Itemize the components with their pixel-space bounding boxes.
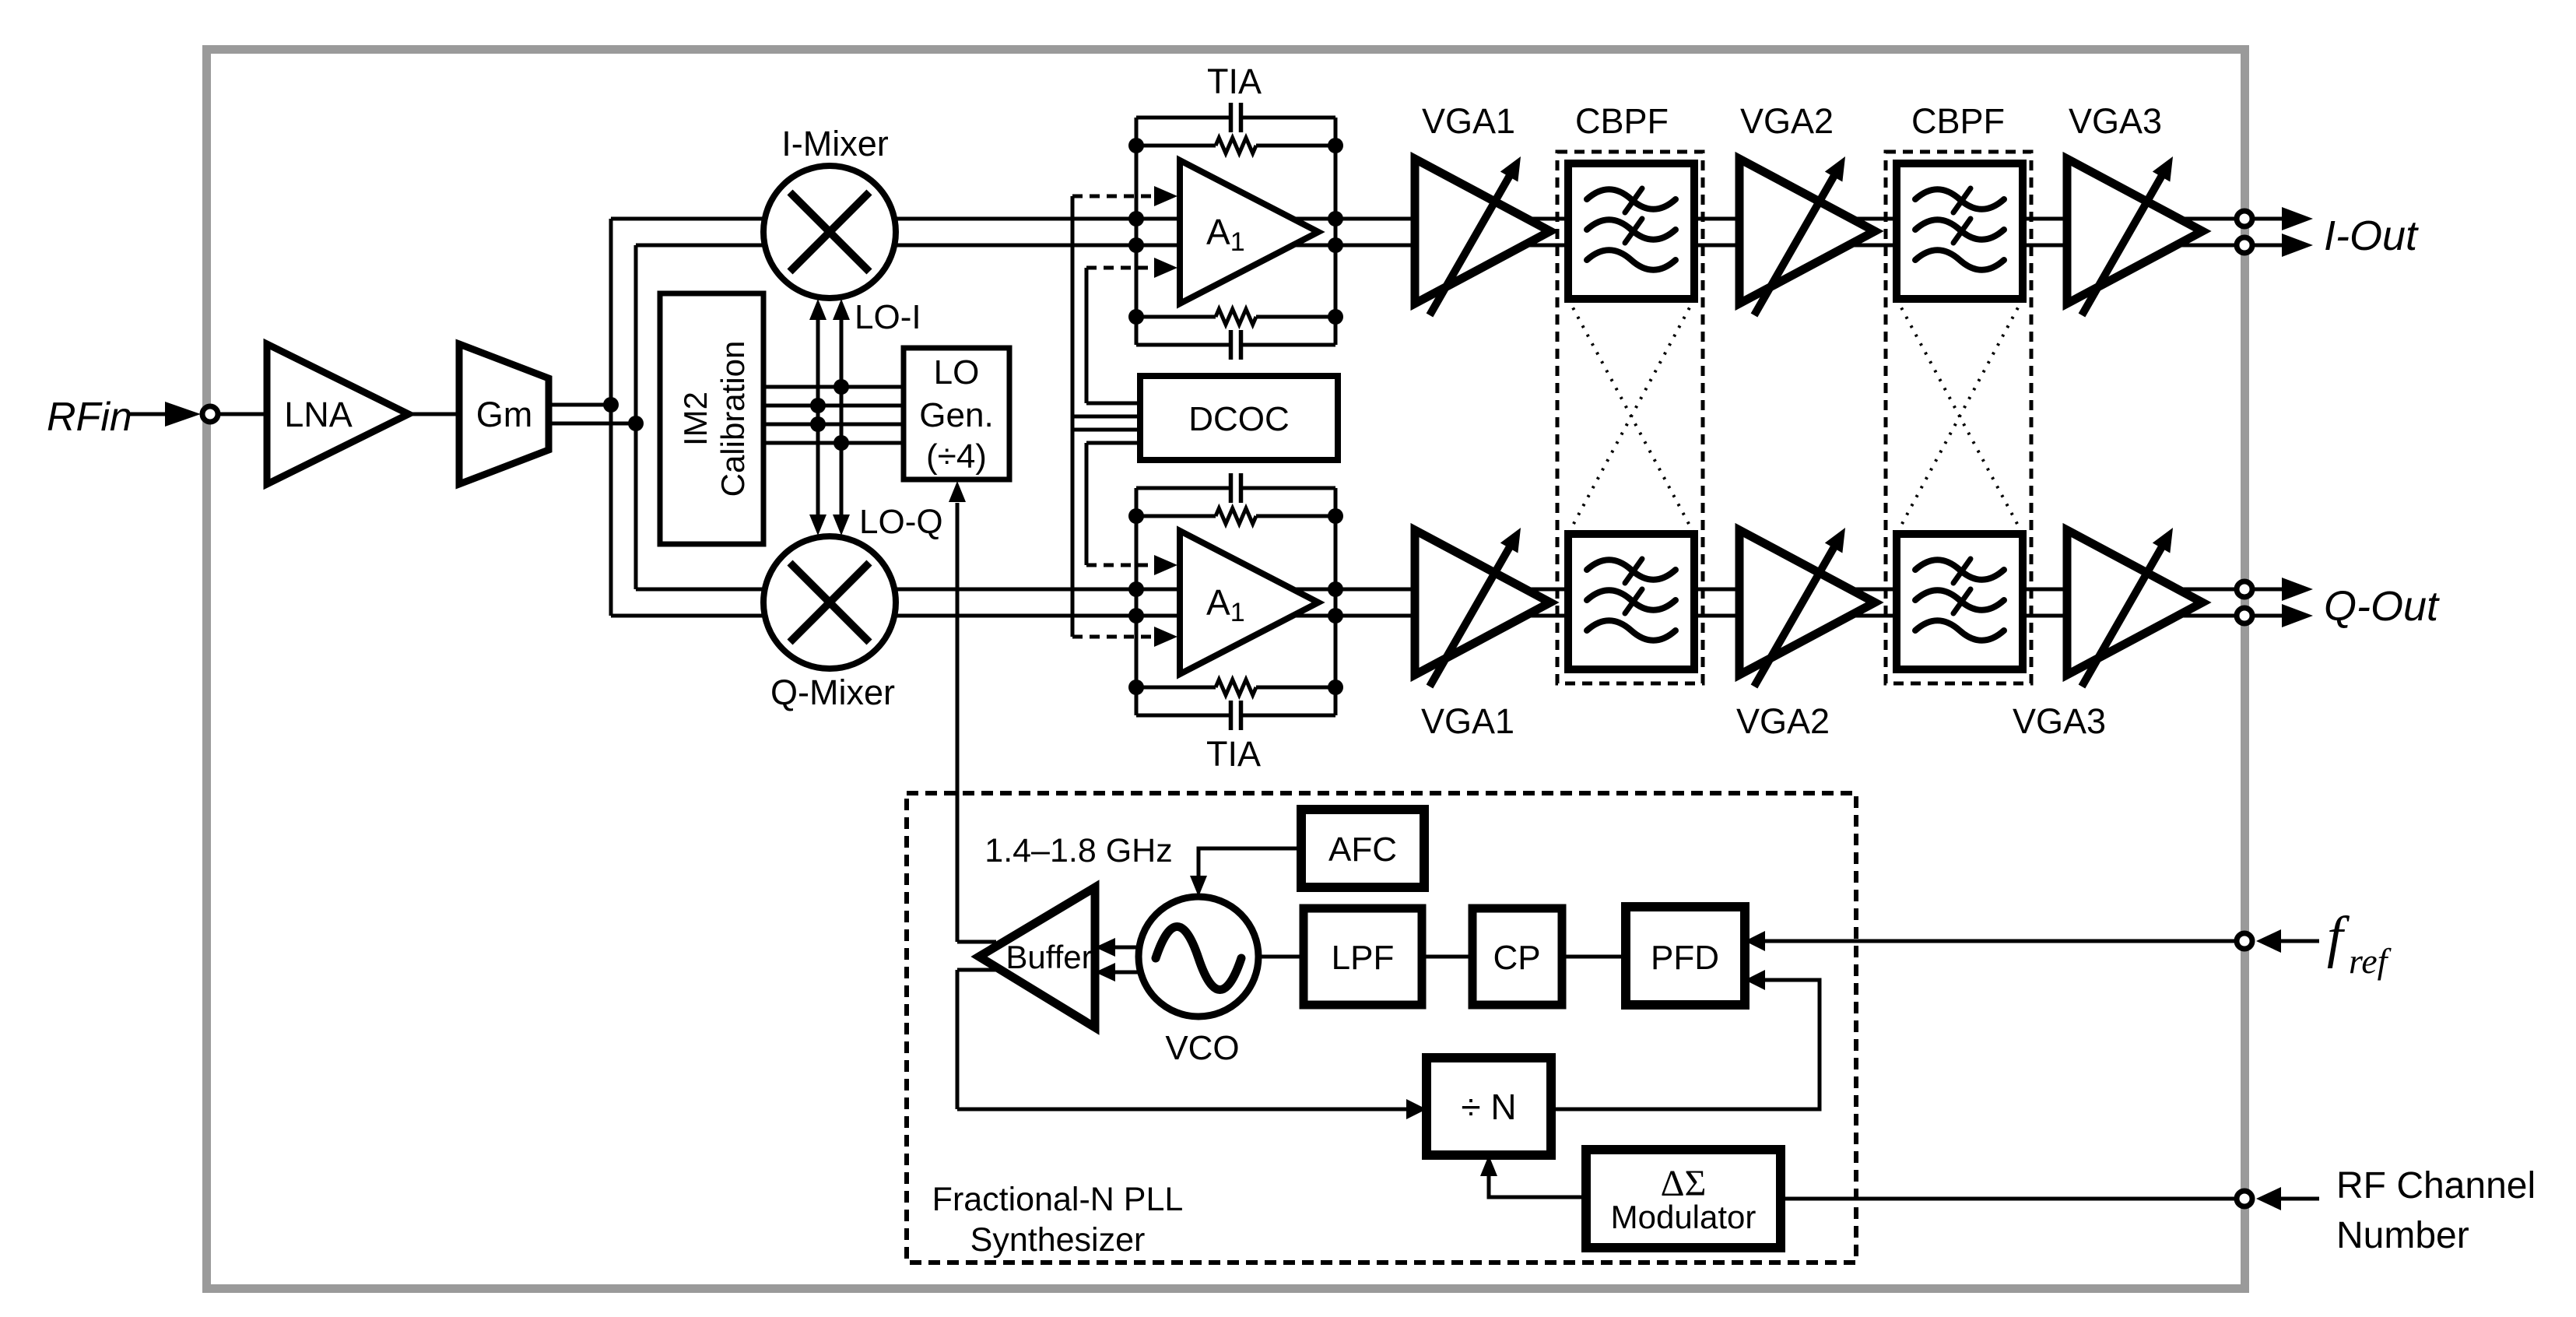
filter CBPF2 I wave 1: [1915, 189, 2004, 209]
amplifier Buffer: [979, 887, 1095, 1027]
node I-Out+: [2237, 211, 2252, 227]
junction TIA-Q: [1128, 581, 1144, 597]
node Q-Out-: [2237, 608, 2252, 623]
capacitor TIA-I bottom: [1136, 343, 1231, 347]
capacitor TIA-Q top: [1136, 486, 1231, 490]
node f_ref pad: [2237, 933, 2252, 949]
junction TIA-Q: [1328, 508, 1343, 524]
filter CBPF2 I wave 3: [1915, 250, 2004, 270]
wire buffer out lower stub: [957, 968, 996, 972]
arrowhead RFin: [165, 402, 201, 427]
svg-text:CBPF: CBPF: [1911, 101, 2005, 141]
filter CBPF2 cross-coupling dotted X: [1897, 299, 2023, 534]
node I-Out-: [2237, 237, 2252, 253]
junction TIA-I: [1328, 138, 1343, 153]
svg-text:Buffer: Buffer: [1005, 939, 1092, 975]
svg-text:TIA: TIA: [1206, 734, 1261, 774]
filter CBPF2 I wave 2: [1915, 219, 2004, 240]
wire DCOC stub 4: [1086, 441, 1140, 445]
amplifier VGA1 (Q): [1415, 530, 1550, 675]
junction TIA-I: [1328, 309, 1343, 325]
arrowhead f_ref into PFD: [1745, 931, 1765, 951]
arrowhead feedback into PFD: [1745, 970, 1765, 990]
wire TIA-I loop left: [1135, 118, 1139, 345]
junction LO bus 4: [834, 435, 849, 451]
arrowhead into divider: [1406, 1099, 1427, 1119]
svg-text:Synthesizer: Synthesizer: [970, 1221, 1146, 1259]
filter CBPF1 I wave 1: [1587, 189, 1676, 209]
arrowhead into buffer +: [1095, 938, 1115, 957]
svg-text:VCO: VCO: [1165, 1029, 1239, 1067]
svg-text:LNA: LNA: [284, 395, 353, 434]
svg-text:Calibration: Calibration: [714, 341, 751, 497]
block LO Gen (divide by 4): [904, 348, 1009, 479]
arrowhead I-Out+: [2282, 207, 2313, 230]
junction TIA-Q: [1328, 581, 1343, 597]
wire RF channel input: [2281, 1197, 2319, 1201]
resistor TIA-I top: [1136, 144, 1216, 148]
amplifier VGA3 (I): [2067, 159, 2202, 304]
arrowhead into divider bottom: [1480, 1155, 1497, 1176]
svg-text:RFin: RFin: [47, 395, 132, 440]
wire LO bus y497: [763, 385, 904, 389]
capacitor TIA-I top: [1136, 116, 1231, 120]
arrowhead LO-Q x1081: [833, 515, 850, 536]
wire DCOC vertical outer: [1071, 196, 1075, 637]
node RFin pad: [202, 406, 218, 422]
wire buffer to LO Gen: [956, 503, 960, 942]
svg-text:AFC: AFC: [1328, 831, 1397, 869]
oscillator VCO: [1139, 897, 1258, 1017]
arrowhead DCOC A1-Q in-: [1154, 627, 1177, 647]
wire Gm out-: [549, 422, 636, 426]
junction TIA-Q: [1328, 680, 1343, 695]
wire split rail A: [609, 219, 613, 616]
block Delta-Sigma Modulator: [1586, 1150, 1781, 1248]
arrowhead Q-Out-: [2282, 604, 2313, 627]
svg-text:Fractional-N PLL: Fractional-N PLL: [932, 1181, 1184, 1218]
wire buffer out upper stub: [957, 940, 996, 944]
svg-text:1.4–1.8 GHz: 1.4–1.8 GHz: [984, 832, 1172, 869]
wire LPF to CP: [1422, 955, 1472, 959]
junction TIA-I: [1128, 138, 1144, 153]
junction TIA-Q: [1128, 608, 1144, 623]
wire RF channel number: [1781, 1197, 2239, 1201]
wire DCOC stub 2: [1072, 415, 1140, 419]
wire Q+ rail: [636, 588, 2244, 592]
block DCOC: [1140, 376, 1338, 460]
arrowhead LO-I x1081: [833, 299, 850, 320]
svg-text:I-Out: I-Out: [2324, 212, 2419, 259]
mixer I-Mixer: [763, 166, 896, 298]
wire divider feedback: [1551, 980, 1820, 1109]
svg-text:Modulator: Modulator: [1611, 1199, 1757, 1235]
wire I-Out+: [2252, 217, 2283, 221]
svg-text:TIA: TIA: [1207, 61, 1262, 101]
wire I+ rail: [611, 217, 2244, 221]
wire VCO to buffer +: [1115, 946, 1139, 950]
wire buffer to divider vertical: [956, 970, 960, 1109]
wire AFC to VCO: [1199, 848, 1301, 878]
svg-text:LO-I: LO-I: [855, 298, 921, 336]
svg-text:VGA2: VGA2: [1740, 101, 1834, 141]
wire dashed DCOC to A1-Q in+: [1086, 564, 1153, 567]
svg-text:VGA1: VGA1: [1421, 701, 1514, 741]
svg-text:Number: Number: [2336, 1215, 2469, 1256]
amplifier VGA1 (I): [1415, 159, 1550, 304]
wire f_ref input: [2281, 939, 2319, 943]
wire Q-Out+: [2252, 588, 2283, 592]
capacitor TIA-Q bottom: [1136, 714, 1231, 718]
svg-text:VGA3: VGA3: [2069, 101, 2162, 141]
filter CBPF2 Q wave 1: [1915, 560, 2004, 580]
junction TIA-I: [1128, 309, 1144, 325]
junction TIA-Q: [1328, 608, 1343, 623]
wire buffer to divider: [957, 1108, 1406, 1112]
svg-text:ref: ref: [2349, 941, 2392, 981]
junction TIA-I: [1128, 237, 1144, 253]
amplifier LNA: [267, 344, 409, 484]
filter CBPF1 Q wave 3: [1587, 620, 1676, 641]
filter CBPF1 Q wave 1: [1587, 560, 1676, 580]
wire dashed DCOC to A1-I in-: [1086, 266, 1153, 270]
filter CBPF1 I-path box: [1568, 163, 1694, 299]
wire TIA-Q loop left: [1135, 488, 1139, 715]
arrowhead RF channel input: [2256, 1187, 2281, 1210]
arrowhead f_ref input: [2256, 929, 2281, 953]
svg-text:VGA2: VGA2: [1736, 701, 1830, 741]
svg-text:LO: LO: [934, 353, 980, 392]
junction TIA-I: [1328, 211, 1343, 227]
wire I-Out-: [2252, 244, 2283, 248]
svg-text:IM2: IM2: [677, 392, 714, 446]
wire LO bus y545: [763, 423, 904, 427]
svg-text:f: f: [2327, 905, 2350, 969]
block PFD: [1626, 907, 1745, 1005]
filter CBPF2 dashed enclosure: [1886, 152, 2031, 683]
filter CBPF1 I wave 3: [1587, 250, 1676, 270]
wire LNA to Gm: [409, 413, 459, 416]
filter CBPF1 dashed enclosure: [1557, 152, 1703, 683]
junction LO bus 2: [810, 398, 826, 413]
wire CP to PFD: [1562, 955, 1626, 959]
wire dashed DCOC to A1-Q in-: [1072, 635, 1153, 639]
wire TIA-Q loop right: [1334, 488, 1338, 715]
amplifier VGA2 (I): [1739, 159, 1875, 304]
filter CBPF1 Q-path box: [1568, 534, 1694, 669]
arrowhead DCOC A1-I in+: [1154, 186, 1177, 206]
svg-text:Gen.: Gen.: [919, 396, 993, 434]
svg-text:CP: CP: [1493, 939, 1540, 977]
arrowhead LO-Q x1051: [809, 515, 826, 536]
filter CBPF2 Q wave 2: [1915, 590, 2004, 610]
svg-text:I-Mixer: I-Mixer: [781, 124, 888, 163]
block AFC: [1301, 810, 1424, 887]
wire TIA-I loop right: [1334, 118, 1338, 345]
filter CBPF1 Q wave 2: [1587, 590, 1676, 610]
junction LO bus 3: [810, 416, 826, 432]
junction TIA-I: [1128, 211, 1144, 227]
filter CBPF2 I-path box: [1897, 163, 2023, 299]
svg-text:÷ N: ÷ N: [1461, 1087, 1516, 1127]
svg-text:(÷4): (÷4): [926, 437, 987, 476]
node RF channel pad: [2237, 1191, 2252, 1206]
resistor TIA-Q bottom: [1136, 686, 1216, 690]
arrowhead DCOC A1-Q in+: [1154, 555, 1177, 575]
svg-text:VGA1: VGA1: [1422, 101, 1515, 141]
svg-text:Gm: Gm: [476, 395, 533, 434]
node Q-Out+: [2237, 581, 2252, 597]
junction LO bus 1: [834, 379, 849, 395]
wire I- rail: [636, 244, 2244, 248]
wire LO bus y521: [763, 404, 904, 408]
filter CBPF1 cross-coupling dotted X: [1568, 299, 1694, 534]
wire DCOC stub 3: [1072, 428, 1140, 432]
svg-text:RF Channel: RF Channel: [2336, 1165, 2536, 1206]
svg-text:CBPF: CBPF: [1575, 101, 1669, 141]
filter CBPF1 I wave 2: [1587, 219, 1676, 240]
svg-text:VGA3: VGA3: [2013, 701, 2106, 741]
junction TIA-I: [1328, 237, 1343, 253]
wire RFin input: [127, 413, 166, 416]
transconductor Gm: [459, 344, 549, 484]
wire DCOC vertical inner top: [1085, 268, 1089, 403]
svg-text:Q-Mixer: Q-Mixer: [770, 673, 895, 712]
arrowhead I-Out-: [2282, 234, 2313, 257]
wire DCOC stub 1: [1086, 402, 1140, 406]
chip boundary frame: [207, 50, 2245, 1289]
op-amp A1 (I path): [1180, 160, 1318, 304]
block CP: [1472, 908, 1562, 1005]
wire Q-Out-: [2252, 614, 2283, 618]
arrowhead DCOC A1-I in-: [1154, 258, 1177, 278]
wire VCO to LPF: [1258, 955, 1304, 959]
Fractional-N PLL dashed enclosure: [907, 793, 1856, 1263]
svg-text:PFD: PFD: [1651, 939, 1719, 977]
arrowhead LO-I x1051: [809, 299, 826, 320]
svg-text:Q-Out: Q-Out: [2324, 583, 2440, 630]
svg-text:LPF: LPF: [1332, 939, 1395, 977]
junction TIA-Q: [1128, 680, 1144, 695]
mixer Q-Mixer: [763, 536, 896, 669]
block IM2 Calibration: [660, 293, 763, 544]
wire LO feed x1051: [816, 318, 820, 515]
op-amp A1 (Q path): [1180, 531, 1318, 674]
junction Gm out- / rail B: [628, 416, 644, 431]
wire split rail B: [634, 245, 638, 589]
wire RFin pad to LNA: [210, 413, 267, 416]
wire f_ref: [1765, 939, 2239, 943]
block divider N: [1427, 1058, 1551, 1155]
wire dashed DCOC to A1-I in+: [1072, 195, 1153, 198]
wire LO feed x1081: [840, 318, 844, 515]
svg-text:LO-Q: LO-Q: [859, 503, 943, 541]
VCO sine symbol: [1156, 927, 1241, 990]
arrowhead AFC to VCO: [1190, 876, 1207, 897]
junction TIA-Q: [1128, 508, 1144, 524]
amplifier VGA2 (Q): [1739, 530, 1875, 675]
filter CBPF2 Q-path box: [1897, 534, 2023, 669]
resistor TIA-Q top: [1136, 515, 1216, 518]
wire LO bus y569: [763, 441, 904, 445]
svg-text:DCOC: DCOC: [1188, 400, 1290, 438]
wire delta-sigma to divider: [1489, 1174, 1586, 1197]
block LPF: [1304, 908, 1422, 1005]
filter CBPF2 Q wave 3: [1915, 620, 2004, 641]
arrowhead into LO Gen: [949, 481, 966, 502]
arrowhead into buffer -: [1095, 963, 1115, 982]
wire Gm out+: [549, 403, 611, 407]
junction Gm out+ / rail A: [603, 397, 619, 413]
wire VCO to buffer -: [1115, 971, 1139, 975]
resistor TIA-I bottom: [1136, 315, 1216, 319]
amplifier VGA3 (Q): [2067, 530, 2202, 675]
wire Q- rail: [611, 614, 2244, 618]
wire DCOC vertical inner bottom: [1085, 443, 1089, 565]
arrowhead Q-Out+: [2282, 578, 2313, 601]
